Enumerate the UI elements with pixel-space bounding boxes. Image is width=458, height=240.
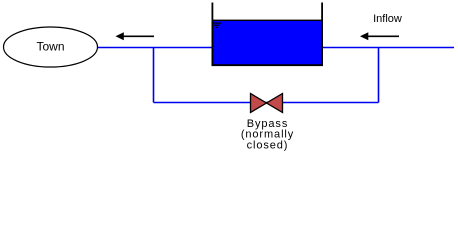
svg-text:closed): closed): [247, 139, 289, 151]
node Town (ellipse): [4, 27, 98, 67]
svg-text:Inflow: Inflow: [373, 13, 402, 25]
wire: bypass right vertical: [378, 47, 380, 103]
water level symbol: [212, 23, 221, 28]
bypass valve (right triangle): [267, 94, 283, 113]
arrow to Town (shaft): [122, 35, 154, 37]
arrow to Town (head): [116, 32, 124, 40]
tank right wall: [321, 3, 323, 67]
inflow arrow (shaft): [366, 35, 399, 37]
inflow arrow (head): [360, 32, 368, 40]
tank left wall: [212, 3, 214, 67]
wire: main blue line from Town to tank: [98, 47, 212, 49]
tank water surface line: [212, 20, 322, 21]
tank water fill: [213, 21, 322, 65]
wire: bypass left vertical: [153, 47, 155, 103]
wire: main blue line from tank to right edge: [322, 47, 454, 49]
tank bottom: [212, 64, 324, 66]
bypass valve (left triangle): [251, 94, 267, 113]
wire: bypass bottom horizontal: [154, 102, 379, 104]
svg-text:Town: Town: [36, 40, 64, 54]
